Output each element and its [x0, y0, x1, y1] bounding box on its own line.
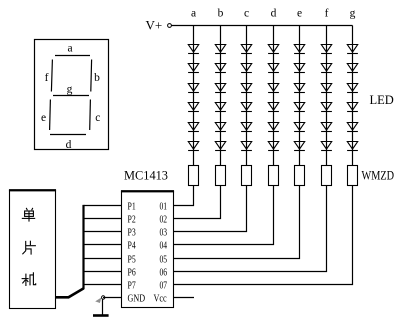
- svg-text:c: c: [95, 112, 100, 124]
- svg-text:f: f: [325, 8, 329, 20]
- svg-text:06: 06: [160, 267, 168, 279]
- wire column a to output O1: [174, 186, 194, 206]
- wire column g vertical: [352, 26, 354, 166]
- svg-text:LED: LED: [370, 93, 394, 107]
- segment g: [53, 95, 89, 97]
- resistor WMZD column d: [269, 166, 279, 186]
- LED Dc5: [241, 123, 252, 132]
- driver chip U1 MC1413 body: [122, 192, 174, 308]
- resistor WMZD column g: [348, 166, 358, 186]
- svg-text:07: 07: [160, 280, 168, 292]
- LED Df1: [321, 45, 332, 54]
- wire column g to output O7: [174, 186, 353, 285]
- wire column a vertical: [193, 26, 195, 166]
- wire P3 input: [84, 231, 122, 233]
- LED Dg2: [347, 64, 358, 73]
- wire column d to output O4: [174, 186, 274, 245]
- svg-text:MC1413: MC1413: [124, 168, 168, 183]
- wire P2 input: [84, 218, 122, 220]
- resistor WMZD column a: [189, 166, 199, 186]
- LED Df5: [321, 123, 332, 132]
- svg-text:WMZD: WMZD: [362, 169, 395, 183]
- MCU text: Chinese char JI (machine): [22, 272, 36, 286]
- cursor artifact (gray arrow): [95, 297, 101, 303]
- segment e: [49, 100, 52, 131]
- svg-text:P1: P1: [128, 201, 136, 213]
- LED Dd3: [268, 84, 279, 93]
- LED Db3: [215, 84, 226, 93]
- svg-text:V+: V+: [146, 18, 163, 33]
- svg-text:b: b: [94, 72, 100, 84]
- LED Df2: [321, 64, 332, 73]
- wire column c vertical: [246, 26, 248, 166]
- segment c: [89, 100, 92, 131]
- resistor WMZD column b: [216, 166, 226, 186]
- LED Dd5: [268, 123, 279, 132]
- LED Df6: [321, 142, 332, 151]
- LED Dg5: [347, 123, 358, 132]
- wire P7 input: [84, 284, 122, 286]
- LED Dg3: [347, 84, 358, 93]
- LED Df4: [321, 103, 332, 112]
- svg-text:05: 05: [160, 254, 168, 266]
- MCU text: Chinese char DAN (single): [22, 208, 35, 222]
- ground junction circle: [102, 296, 105, 299]
- svg-text:P4: P4: [128, 240, 137, 252]
- svg-text:02: 02: [160, 214, 168, 226]
- resistor WMZD column f: [322, 166, 332, 186]
- ground wire vertical: [102, 299, 104, 314]
- LED Dg6: [347, 142, 358, 151]
- svg-text:c: c: [244, 8, 249, 20]
- svg-text:g: g: [350, 8, 356, 20]
- svg-text:e: e: [297, 8, 302, 20]
- wire column c to output O3: [174, 186, 247, 232]
- wire column b to output O2: [174, 186, 221, 219]
- LED De2: [294, 64, 305, 73]
- segment f: [51, 60, 52, 92]
- LED Dc1: [241, 45, 252, 54]
- svg-text:01: 01: [160, 201, 168, 213]
- V+ bus wire: [172, 25, 353, 27]
- svg-text:04: 04: [160, 240, 168, 252]
- LED Db4: [215, 103, 226, 112]
- LED De4: [294, 103, 305, 112]
- wire P6 input: [84, 271, 122, 273]
- LED Db5: [215, 123, 226, 132]
- svg-text:Vcc: Vcc: [154, 293, 167, 305]
- LED Dg1: [347, 45, 358, 54]
- ground bar: [93, 314, 109, 317]
- LED Dd1: [268, 45, 279, 54]
- resistor WMZD column c: [242, 166, 252, 186]
- segment a: [55, 55, 90, 57]
- wire column e to output O5: [174, 186, 300, 259]
- segment d: [50, 134, 86, 136]
- svg-text:e: e: [41, 112, 46, 124]
- wire column f to output O6: [174, 186, 327, 272]
- wire MCU to input bus (thick): [56, 288, 84, 297]
- wire Vcc stub: [174, 297, 195, 299]
- svg-text:d: d: [66, 139, 72, 151]
- LED Da4: [188, 103, 199, 112]
- LED Dc3: [241, 84, 252, 93]
- LED Dd4: [268, 103, 279, 112]
- wire column f vertical: [326, 26, 328, 166]
- LED Da3: [188, 84, 199, 93]
- svg-text:P5: P5: [128, 254, 137, 266]
- svg-text:03: 03: [160, 227, 168, 239]
- LED De3: [294, 84, 305, 93]
- LED Db1: [215, 45, 226, 54]
- LED Dc2: [241, 64, 252, 73]
- svg-text:g: g: [67, 84, 73, 96]
- LED Dc6: [241, 142, 252, 151]
- LED Dd2: [268, 64, 279, 73]
- microcontroller box (MCU): [10, 191, 56, 309]
- wire column d vertical: [273, 26, 275, 166]
- segment b: [90, 60, 93, 92]
- LED Dc4: [241, 103, 252, 112]
- seven-segment display box: [35, 40, 109, 150]
- svg-text:d: d: [271, 8, 277, 20]
- wire column e vertical: [299, 26, 301, 166]
- LED Da5: [188, 123, 199, 132]
- svg-text:a: a: [191, 8, 196, 20]
- resistor WMZD column e: [295, 166, 305, 186]
- V+ terminal circle: [168, 24, 172, 28]
- LED De6: [294, 142, 305, 151]
- wire input bus vertical: [82, 205, 84, 289]
- svg-text:a: a: [67, 43, 72, 55]
- LED Dd6: [268, 142, 279, 151]
- wire P1 input: [84, 205, 122, 207]
- wire P5 input: [84, 258, 122, 260]
- svg-text:b: b: [218, 8, 224, 20]
- svg-text:P6: P6: [128, 267, 137, 279]
- svg-text:P2: P2: [128, 214, 136, 226]
- LED Dg4: [347, 103, 358, 112]
- MCU text: Chinese char PIAN (chip): [22, 241, 36, 255]
- LED De1: [294, 45, 305, 54]
- LED Db6: [215, 142, 226, 151]
- wire column b vertical: [220, 26, 222, 166]
- wire GND pin: [103, 297, 122, 299]
- LED Da6: [188, 142, 199, 151]
- wire P4 input: [84, 244, 122, 246]
- LED Da2: [188, 64, 199, 73]
- svg-text:f: f: [45, 72, 49, 84]
- LED De5: [294, 123, 305, 132]
- svg-text:GND: GND: [128, 293, 146, 305]
- svg-text:P7: P7: [128, 280, 137, 292]
- LED Da1: [188, 45, 199, 54]
- LED Df3: [321, 84, 332, 93]
- LED Db2: [215, 64, 226, 73]
- svg-text:P3: P3: [128, 227, 137, 239]
